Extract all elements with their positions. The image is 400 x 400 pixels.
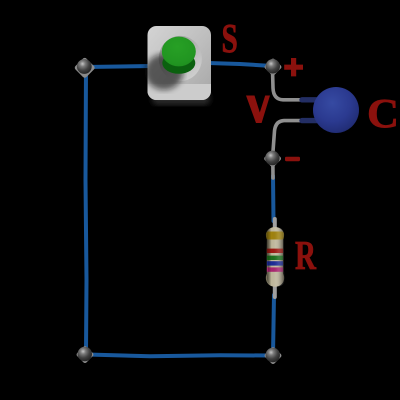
wire right lower (resistor to node) [273, 295, 274, 355]
capacitor C connector stub bottom [302, 118, 318, 123]
wire left vertical [86, 67, 87, 352]
resistor lead bottom (gray) [273, 285, 277, 297]
pushbutton S green side [162, 52, 195, 74]
resistor lead stub top (gray) [271, 157, 275, 178]
label + [284, 58, 303, 76]
pushbutton S green cap [162, 37, 196, 67]
node bottom-left base [76, 345, 95, 364]
resistor R magenta band [267, 267, 283, 271]
capacitor C lead top (gray) [273, 70, 319, 100]
capacitor C lead bottom (gray) [273, 121, 318, 154]
node top-left [77, 59, 92, 74]
node mid-right base [263, 149, 282, 168]
pushbutton S collar [159, 36, 202, 81]
pushbutton S body bottom bevel [148, 84, 212, 100]
node bottom-right [266, 348, 280, 362]
pushbutton S shadow below body [152, 92, 210, 105]
svg-text:R: R [295, 232, 316, 278]
resistor lead top (gray) [273, 219, 277, 229]
resistor R cylinder shading [266, 227, 285, 287]
node mid-right [265, 151, 279, 165]
resistor R blue band [267, 261, 283, 265]
resistor R gold band [266, 232, 283, 240]
node bottom-left [78, 347, 92, 361]
label - [285, 157, 300, 161]
capacitor C connector stub top [302, 97, 318, 102]
capacitor C body sphere [313, 87, 359, 133]
node top-right [266, 59, 280, 73]
wire top segment right (switch to node) [208, 63, 268, 66]
svg-text:S: S [222, 15, 238, 61]
pushbutton S body [148, 26, 212, 100]
resistor R red band [267, 249, 283, 253]
svg-text:C: C [367, 90, 399, 136]
resistor R body bottom bulge [266, 269, 284, 287]
pushbutton S button cast shadow [145, 54, 183, 90]
node top-right base [264, 58, 283, 77]
node bottom-right base [264, 346, 283, 365]
wire top segment left (node to switch) [85, 66, 152, 67]
resistor R green band [267, 256, 283, 260]
resistor R body top bulge [266, 227, 284, 243]
resistor R body mid [267, 233, 283, 277]
label V [246, 96, 270, 124]
wire bottom horizontal [87, 355, 270, 357]
wire right upper (node to resistor) [271, 176, 276, 221]
node top-left base [74, 57, 96, 79]
